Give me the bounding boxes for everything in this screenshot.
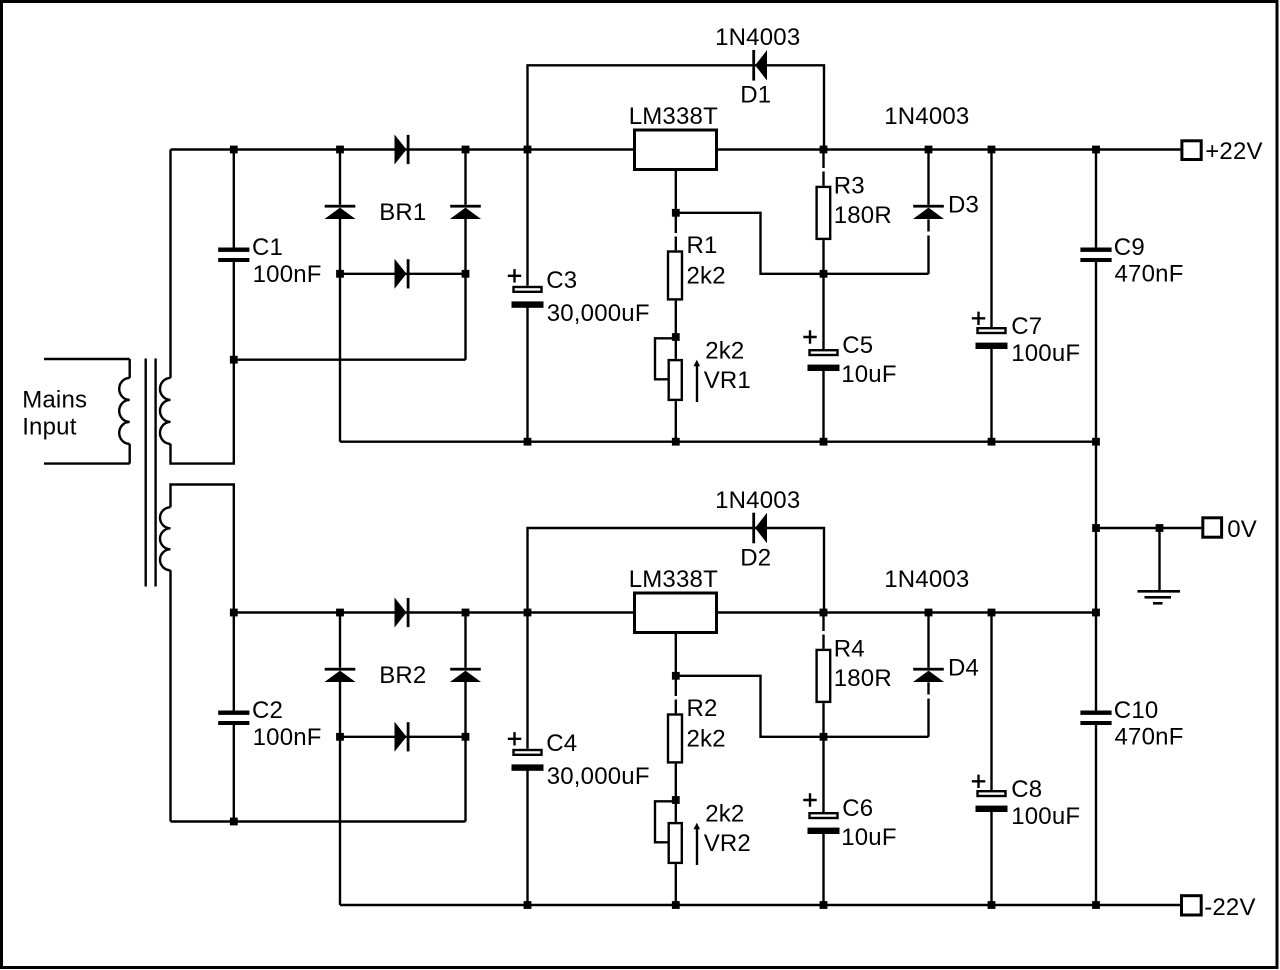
capacitor C7 (100uF): [972, 312, 985, 325]
junction: 0V lower rail / C8: [988, 609, 996, 617]
wire: C2 upper lead: [233, 613, 235, 711]
wire: VR2 wiper link: [655, 801, 676, 842]
junction: +22V rail / C1: [230, 146, 238, 154]
svg-text:470nF: 470nF: [1115, 260, 1184, 287]
potentiometer VR2 arrow: [696, 827, 698, 865]
svg-text:2k2: 2k2: [705, 800, 744, 827]
junction: -22V rail / C4: [524, 901, 532, 909]
svg-text:C3: C3: [546, 267, 577, 294]
svg-text:100nF: 100nF: [253, 261, 322, 288]
svg-text:Input: Input: [22, 413, 77, 440]
svg-text:100uF: 100uF: [1011, 340, 1080, 367]
svg-text:VR2: VR2: [704, 830, 751, 857]
junction: secondary 1 return / C1 branch: [230, 356, 238, 364]
transformer T1 secondary 2 lower lead: [169, 570, 171, 821]
wire: 0V return rail: [340, 441, 1096, 443]
junction: -22V rail / output vertical: [1092, 901, 1100, 909]
transformer T1 secondary 1 winding: [160, 378, 170, 444]
terminal: -22V output: [1182, 896, 1202, 915]
wire: secondary 1 return link: [234, 359, 466, 361]
junction: 0V return rail / output vertical: [1092, 438, 1100, 446]
svg-text:30,000uF: 30,000uF: [547, 763, 650, 790]
junction: +22V rail / BR1 right: [462, 146, 470, 154]
svg-text:100nF: 100nF: [253, 724, 322, 751]
junction: 0V lower rail / C4: [524, 609, 532, 617]
wire: secondary 2 return link: [171, 820, 466, 822]
svg-text:R2: R2: [687, 695, 718, 722]
junction: 0V lower rail / C2: [230, 609, 238, 617]
junction: 0V line / output vertical: [1092, 524, 1100, 532]
transformer T1 primary top lead: [44, 358, 130, 360]
svg-text:C4: C4: [546, 730, 577, 757]
svg-text:C2: C2: [252, 697, 283, 724]
resistor R4 (180R): [817, 650, 831, 702]
svg-text:Mains: Mains: [22, 386, 87, 413]
resistor R1 (2k2): [668, 252, 682, 300]
svg-text:2k2: 2k2: [687, 262, 726, 289]
transformer T1 primary winding: [119, 378, 130, 444]
wire: C5 upper lead: [822, 274, 824, 349]
capacitor C2 (100nF): [218, 711, 249, 715]
svg-text:0V: 0V: [1227, 516, 1257, 543]
capacitor C10 (470nF): [1080, 711, 1111, 715]
svg-text:30,000uF: 30,000uF: [547, 300, 650, 327]
capacitor C4 (30,000uF): [508, 732, 521, 745]
junction: -22V rail / C6: [820, 901, 828, 909]
wire: U1 ADJ pin: [675, 171, 677, 213]
diode D3 (1N4003): [913, 205, 944, 208]
wire: VR2 lower lead: [675, 864, 677, 905]
svg-text:10uF: 10uF: [841, 361, 897, 388]
wire: R4 upper lead: [822, 613, 824, 632]
svg-text:C5: C5: [842, 332, 873, 359]
svg-text:-22V: -22V: [1204, 894, 1256, 921]
regulator U2 LM338T body: [635, 593, 717, 633]
wire: BR1 left leg: [339, 150, 341, 205]
capacitor C3 (30,000uF): [508, 269, 521, 282]
wire: D2 bypass loop: [528, 528, 825, 613]
wire: ADJ network jog: [676, 213, 929, 274]
wire: C4 lower lead: [526, 770, 528, 905]
wire: BR2 left leg: [339, 613, 341, 668]
diode D1 (1N4003 protection): [752, 50, 755, 81]
ground symbol: [1158, 528, 1160, 591]
transformer T1 secondary 1 lower lead: [171, 360, 234, 464]
svg-text:D1: D1: [740, 81, 771, 108]
svg-text:C9: C9: [1114, 234, 1145, 261]
resistor R3 (180R): [817, 187, 831, 239]
wire: C1 upper lead: [233, 150, 235, 248]
wire: C6 lower lead: [822, 832, 824, 905]
wire: R3 upper lead: [822, 150, 824, 169]
terminal: +22V output: [1182, 141, 1201, 160]
wire: D4 leg lower: [927, 682, 929, 694]
wire: C8 upper lead: [990, 613, 992, 791]
wire: C7 upper lead: [990, 150, 992, 328]
wire: 0V line: [1096, 527, 1201, 529]
wire: ADJ network jog: [676, 676, 929, 737]
diode D4 (1N4003): [913, 668, 944, 671]
diode BR2 left (bridge): [325, 668, 356, 671]
junction: 0V line / ground stub: [1156, 524, 1164, 532]
svg-text:1N4003: 1N4003: [884, 566, 969, 593]
junction: 0V return rail / C5: [820, 438, 828, 446]
svg-text:100uF: 100uF: [1011, 803, 1080, 830]
junction: lower row / BR2 right: [462, 733, 470, 741]
wire: output vertical bus: [1095, 150, 1097, 248]
svg-text:D3: D3: [948, 191, 979, 218]
wire: BR2 right leg: [464, 613, 466, 668]
svg-text:1N4003: 1N4003: [715, 487, 800, 514]
junction: 0V return rail / C7: [988, 438, 996, 446]
svg-text:LM338T: LM338T: [629, 566, 718, 593]
junction: 0V lower rail / BR2 right: [462, 609, 470, 617]
junction: -22V rail / VR2: [672, 901, 680, 909]
svg-text:BR2: BR2: [379, 662, 426, 689]
junction: 0V lower rail / BR2 left: [336, 609, 344, 617]
transformer T1 secondary 1 upper lead: [169, 150, 171, 378]
svg-text:C6: C6: [842, 795, 873, 822]
terminal: 0V output: [1203, 518, 1222, 537]
diode D2 (1N4003 protection): [752, 513, 755, 544]
junction: 0V lower rail / R4: [820, 609, 828, 617]
junction: VR2 top: [672, 796, 680, 804]
wire: -22V rail: [340, 904, 1180, 906]
wire: BR1 right leg: [464, 150, 466, 205]
wire: BR2 lower diode row: [340, 736, 466, 738]
svg-text:470nF: 470nF: [1115, 723, 1184, 750]
wire: D1 bypass loop: [528, 65, 825, 149]
wire: VR1 lower lead: [675, 401, 677, 442]
diode BR1 left (bridge): [325, 205, 356, 208]
diode BR2 right (bridge): [450, 668, 481, 671]
transformer T1 primary bottom lead: [128, 444, 130, 464]
junction: lower row / BR1 right: [462, 270, 470, 278]
wire: VR1 upper lead: [675, 337, 677, 359]
diode BR1 top (bridge): [395, 135, 407, 165]
wire: R1 upper lead: [675, 213, 677, 233]
wire: R2 upper lead: [675, 676, 677, 696]
junction: ADJ node R2: [672, 672, 680, 680]
potentiometer VR1 (2k2) body: [669, 360, 682, 400]
resistor R2 (2k2): [668, 715, 682, 763]
wire: C4 upper lead: [526, 613, 528, 749]
transformer T1 secondary 2 upper lead: [171, 485, 234, 613]
regulator U1 LM338T body: [635, 130, 717, 170]
junction: lower row / R4-C6: [820, 733, 828, 741]
wire: R3 lower lead: [822, 240, 824, 274]
junction: 0V return rail / VR1: [672, 438, 680, 446]
svg-text:1N4003: 1N4003: [884, 103, 969, 130]
wire: D4 leg upper: [927, 613, 929, 668]
capacitor C6 (10uF): [803, 793, 816, 806]
wire: D3 leg upper: [927, 150, 929, 205]
wire: U2 ADJ pin: [675, 634, 677, 676]
svg-text:1N4003: 1N4003: [715, 24, 800, 51]
svg-text:2k2: 2k2: [687, 725, 726, 752]
junction: 0V lower rail / D4: [925, 609, 933, 617]
svg-text:C10: C10: [1114, 697, 1159, 724]
capacitor C5 (10uF): [803, 330, 816, 343]
svg-text:R4: R4: [834, 635, 865, 662]
wire: R4 lower lead: [822, 703, 824, 737]
svg-text:180R: 180R: [834, 202, 892, 229]
junction: ADJ node R1: [672, 209, 680, 217]
wire: VR2 upper lead: [675, 800, 677, 822]
wire: C7 lower lead: [990, 349, 992, 442]
wire: C6 upper lead: [822, 737, 824, 812]
diode BR1 right (bridge): [450, 205, 481, 208]
svg-text:VR1: VR1: [704, 367, 751, 394]
junction: -22V rail / C8: [988, 901, 996, 909]
junction: +22V rail / output vertical: [1092, 146, 1100, 154]
svg-text:LM338T: LM338T: [629, 103, 718, 130]
capacitor C1 (100nF): [218, 248, 249, 252]
svg-text:R3: R3: [834, 172, 865, 199]
wire: VR1 wiper link: [655, 338, 676, 379]
svg-text:C1: C1: [252, 234, 283, 261]
wire: D3 leg lower: [927, 219, 929, 231]
svg-text:10uF: 10uF: [841, 824, 897, 851]
junction: +22V rail / D3: [925, 146, 933, 154]
potentiometer VR2 (2k2) body: [669, 823, 682, 863]
junction: 0V lower rail / output vertical: [1092, 609, 1100, 617]
capacitor C8 (100uF): [972, 775, 985, 788]
junction: +22V rail / BR1 left: [336, 146, 344, 154]
potentiometer VR1 arrow: [696, 364, 698, 402]
wire: R2 lower lead: [675, 764, 677, 800]
wire: R1 lower lead: [675, 301, 677, 337]
wire: 0V lower rail left section: [234, 611, 633, 613]
svg-text:C7: C7: [1011, 313, 1042, 340]
wire: C8 lower lead: [990, 812, 992, 905]
svg-text:C8: C8: [1011, 776, 1042, 803]
svg-text:D4: D4: [948, 654, 979, 681]
junction: secondary 2 return / C2 branch: [230, 818, 238, 826]
junction: lower row / BR2 left: [336, 733, 344, 741]
wire: C1 lower lead: [233, 262, 235, 360]
wire: +22V rail left section: [171, 148, 634, 150]
diode BR1 bottom (bridge): [395, 259, 407, 289]
svg-text:D2: D2: [740, 544, 771, 571]
transformer T1 secondary 2 winding: [160, 507, 170, 570]
junction: +22V rail / R3: [820, 146, 828, 154]
wire: C3 upper lead: [526, 150, 528, 286]
junction: lower row / BR1 left: [336, 270, 344, 278]
transformer T1 core: [144, 359, 146, 587]
svg-text:2k2: 2k2: [705, 337, 744, 364]
wire: BR1 lower diode row: [340, 273, 466, 275]
diode BR2 top (bridge): [395, 598, 407, 628]
junction: 0V return rail / C3: [524, 438, 532, 446]
wire: 0V lower rail right section: [718, 611, 1096, 613]
wire: +22V rail right section: [718, 148, 1180, 150]
wire: C5 lower lead: [822, 369, 824, 441]
junction: +22V rail / C3: [524, 146, 532, 154]
capacitor C9 (470nF): [1080, 248, 1111, 252]
junction: +22V rail / C7: [988, 146, 996, 154]
wire: C2 lower lead: [233, 725, 235, 822]
svg-text:R1: R1: [687, 232, 718, 259]
svg-text:BR1: BR1: [379, 199, 426, 226]
svg-text:+22V: +22V: [1205, 138, 1263, 165]
svg-text:180R: 180R: [834, 665, 892, 692]
junction: VR1 top: [672, 333, 680, 341]
junction: lower row / R3-C5: [820, 270, 828, 278]
wire: C3 lower lead: [526, 307, 528, 442]
diode BR2 bottom (bridge): [395, 722, 407, 752]
